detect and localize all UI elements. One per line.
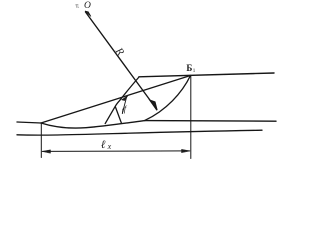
f top arrowhead (122, 96, 128, 101)
vertical extension line from B (190, 76, 192, 159)
muck pile curve (41, 121, 145, 128)
arrowhead at point O end (85, 11, 91, 17)
upper plateau surface line (139, 73, 274, 77)
svg-text:f: f (124, 104, 128, 114)
bench face line (105, 77, 139, 124)
vertical extension line at left toe (40, 123, 42, 158)
svg-text:O: O (84, 1, 91, 11)
lower ground line (17, 130, 262, 135)
dimension line lx (43, 150, 190, 153)
f dimension line (122, 96, 127, 113)
svg-text:R: R (112, 45, 126, 58)
right leg of small triangle at toe (115, 107, 121, 124)
f bottom arrowhead (122, 108, 124, 114)
right ground line segment (145, 120, 276, 123)
right arrowhead of lx (182, 149, 191, 152)
label lx (101, 139, 112, 151)
svg-text:т.: т. (76, 3, 80, 10)
left arrowhead of lx (42, 150, 51, 153)
left ground line segment (17, 122, 41, 123)
point B label (186, 63, 195, 74)
svg-text:ℓ: ℓ (101, 139, 106, 151)
svg-text:x: x (107, 142, 112, 151)
point O label (76, 1, 92, 11)
svg-text:1: 1 (193, 69, 196, 74)
slope line from B to left toe (41, 76, 191, 124)
arrowhead at lower end of R (150, 100, 157, 110)
svg-text:Б: Б (186, 63, 192, 73)
arc from B (slip surface) (145, 76, 191, 121)
radius line R (86, 12, 157, 109)
